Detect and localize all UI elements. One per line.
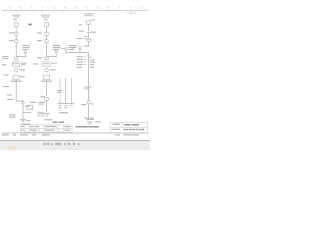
wire labels right of pin stack bbox=[90, 57, 96, 68]
bundle label bbox=[57, 90, 62, 91]
taskbar icon hint bottom left bbox=[8, 147, 15, 151]
left margin label bbox=[3, 74, 8, 75]
connector C9 label bbox=[50, 69, 56, 70]
toolbar icons bbox=[44, 143, 80, 146]
ground bus bar G104 bbox=[84, 117, 94, 119]
wire bundle line 3 bbox=[70, 78, 72, 103]
connector C4 bbox=[15, 69, 18, 72]
parts table cell text bbox=[21, 126, 70, 131]
connector C8 row with left label bbox=[37, 57, 43, 58]
connector C3 row with left label bbox=[2, 56, 9, 57]
ground G104 label bbox=[87, 121, 92, 122]
node HOT AT ALL TIMES header (chain 3) bbox=[84, 13, 94, 16]
wire bbox=[46, 80, 48, 96]
wire bbox=[46, 27, 48, 32]
connector C112 bbox=[87, 101, 90, 104]
fuse F3 left label bbox=[79, 24, 82, 25]
connector header bar bbox=[58, 103, 75, 105]
ground G103 bbox=[20, 119, 26, 122]
connector C112 right mark bbox=[91, 103, 94, 104]
wire bbox=[46, 35, 48, 39]
wire bundle line 2 bbox=[65, 78, 67, 103]
component box G201 bbox=[38, 112, 44, 116]
wire jog to splice bbox=[16, 100, 23, 103]
fuse F3 bbox=[87, 21, 91, 24]
vehicle title text bbox=[76, 126, 100, 127]
pin tick marks bbox=[84, 57, 86, 65]
fuse F1 bbox=[14, 23, 18, 27]
connector C112 left label bbox=[81, 104, 86, 105]
wire bbox=[22, 113, 24, 119]
wire splice S1 drop bbox=[16, 53, 25, 56]
component K1 box bbox=[13, 62, 20, 66]
wire from S210 to chain 3 bbox=[66, 50, 80, 53]
wire bbox=[15, 35, 17, 39]
connector C5 box bbox=[27, 105, 33, 110]
component M1 label below bbox=[11, 81, 22, 82]
wire bbox=[15, 43, 17, 57]
node HOT AT ALL TIMES header (chain 1) bbox=[12, 15, 20, 18]
splice S210 left label bbox=[55, 45, 61, 50]
title block labels bbox=[112, 124, 121, 130]
connector pins below bar bbox=[59, 105, 73, 108]
splice S1 label block bbox=[23, 45, 31, 50]
component K2 label bbox=[51, 63, 57, 64]
wire bbox=[15, 27, 17, 32]
inline connector label left bbox=[79, 31, 85, 32]
wire bbox=[88, 32, 90, 36]
heading left marks bbox=[23, 124, 32, 125]
fuse F1 value label bbox=[29, 24, 32, 26]
splice S2 bbox=[22, 102, 24, 104]
bundle component label bbox=[59, 112, 68, 113]
wire splice S3 drop bbox=[47, 53, 57, 57]
fuse F2 bbox=[45, 23, 49, 27]
splice S2 label bbox=[30, 102, 37, 103]
sheet top border line bbox=[2, 10, 148, 12]
revision note top right bbox=[127, 13, 136, 14]
component box left bbox=[10, 115, 16, 118]
zone tick marks on border bbox=[17, 10, 131, 12]
connector C111 stack bbox=[85, 37, 89, 39]
wire chain3 main drop bbox=[88, 53, 90, 101]
connector C5 branch bbox=[23, 105, 30, 106]
connector pin stack labels bbox=[77, 56, 84, 68]
splice S210 bbox=[65, 48, 67, 50]
wire bbox=[88, 24, 90, 31]
wire bbox=[88, 41, 90, 46]
pin mark above bbox=[87, 55, 89, 56]
inline connector C110 bbox=[87, 31, 91, 33]
wire label bbox=[85, 87, 92, 88]
parts table bbox=[21, 125, 73, 132]
note triangle label bbox=[87, 119, 94, 120]
wire bbox=[88, 104, 90, 117]
left margin label bbox=[3, 86, 8, 87]
heading GROUND DISTRIBUTION bbox=[53, 122, 58, 123]
connector label C210 bbox=[44, 19, 47, 20]
connector C111 label bbox=[77, 38, 83, 39]
ground G103 label bbox=[26, 120, 30, 121]
left label bbox=[33, 63, 38, 64]
wire S211 to chain3 top bbox=[80, 49, 89, 53]
connector C4 label bbox=[20, 69, 26, 70]
title block table bbox=[110, 122, 148, 132]
node HOT IN RUN header (chain 2) bbox=[41, 15, 50, 18]
splice S3 label block bbox=[53, 45, 61, 50]
viewer band divider bbox=[0, 140, 150, 141]
footer date text bbox=[2, 134, 139, 135]
connector C10 cluster bbox=[41, 96, 46, 97]
splice S210 right label bbox=[69, 45, 76, 50]
left margin label bbox=[2, 64, 7, 65]
connector C6 pin row bbox=[37, 32, 41, 33]
title block values bbox=[124, 124, 145, 130]
splice S211 label bbox=[72, 45, 78, 48]
connector C7 pin row bbox=[37, 40, 41, 41]
ground G201 label bbox=[45, 119, 53, 120]
fuse F3 label right bbox=[91, 19, 95, 20]
zone number digits above border bbox=[9, 7, 142, 9]
wire bbox=[22, 104, 24, 113]
ground G201 marks bbox=[45, 114, 50, 117]
wire bbox=[46, 100, 48, 112]
splice S1 bbox=[24, 51, 26, 53]
sheet number note bbox=[95, 121, 101, 122]
connector C1 pin row bbox=[9, 32, 13, 33]
connector label C100 bbox=[14, 19, 17, 20]
component M1 bbox=[13, 75, 19, 79]
viewer gray band bbox=[0, 141, 150, 150]
wire bbox=[15, 80, 17, 101]
component M2 label below bbox=[41, 81, 52, 82]
sheet bottom border line bbox=[2, 132, 148, 134]
component K2 box bbox=[43, 62, 50, 66]
wire bundle line 1 bbox=[59, 78, 61, 103]
wire horizontal bbox=[23, 112, 32, 114]
connector C2 pin row bbox=[9, 40, 13, 41]
wire through splice S210 bbox=[61, 48, 65, 50]
connector C9 bbox=[45, 69, 48, 72]
splice S3 bbox=[55, 50, 57, 52]
component M2 bbox=[43, 75, 49, 79]
component K1 label bbox=[21, 63, 27, 64]
connector C10 label bbox=[39, 102, 46, 103]
splice S211 bbox=[79, 47, 81, 49]
label right of S211 bbox=[84, 45, 90, 46]
inline connector label right bbox=[90, 32, 96, 33]
heading small text above bbox=[85, 118, 87, 120]
wire bbox=[46, 43, 48, 57]
